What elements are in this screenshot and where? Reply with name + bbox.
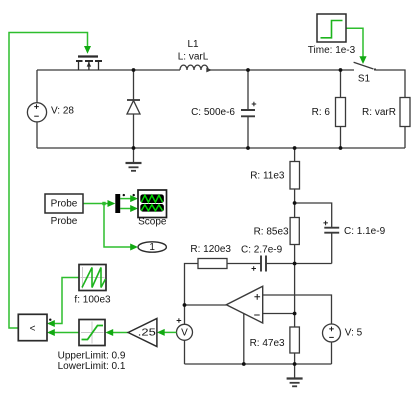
svg-text:UpperLimit: 0.9: UpperLimit: 0.9 — [58, 350, 126, 361]
svg-text:1: 1 — [149, 242, 155, 253]
svg-text:L1: L1 — [187, 39, 199, 50]
svg-text:C: 2.7e-9: C: 2.7e-9 — [241, 245, 283, 256]
svg-text:S1: S1 — [358, 74, 371, 85]
svg-text:C: 1.1e-9: C: 1.1e-9 — [344, 226, 386, 237]
svg-text:V: V — [181, 327, 188, 338]
svg-text:R: 85e3: R: 85e3 — [254, 227, 289, 238]
svg-text:Probe: Probe — [51, 199, 78, 210]
svg-text:C: 500e-6: C: 500e-6 — [191, 107, 235, 118]
svg-text:LowerLimit: 0.1: LowerLimit: 0.1 — [58, 361, 126, 372]
svg-text:V: 28: V: 28 — [51, 106, 74, 117]
svg-text:.25: .25 — [138, 328, 157, 339]
svg-text:f: 100e3: f: 100e3 — [74, 295, 111, 306]
svg-text:L: varL: L: varL — [178, 52, 209, 63]
svg-text:V: 5: V: 5 — [345, 327, 363, 338]
svg-text:<: < — [30, 324, 36, 335]
svg-text:Scope: Scope — [138, 217, 167, 228]
svg-text:R: 120e3: R: 120e3 — [190, 244, 231, 255]
svg-text:Time: 1e-3: Time: 1e-3 — [308, 45, 356, 56]
svg-text:R: 11e3: R: 11e3 — [250, 171, 285, 182]
svg-text:Probe: Probe — [51, 216, 78, 227]
svg-text:R: 6: R: 6 — [312, 107, 331, 118]
svg-text:R: 47e3: R: 47e3 — [250, 338, 285, 349]
svg-text:R: varR: R: varR — [362, 107, 396, 118]
